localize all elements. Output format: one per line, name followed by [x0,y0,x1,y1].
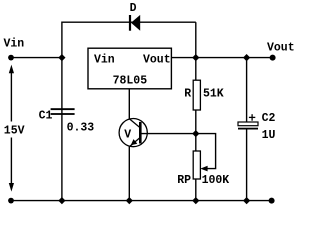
node bottom rail right terminal [269,198,275,204]
svg-text:78L05: 78L05 [113,75,148,88]
diode D cathode bar [129,15,131,31]
wire: output rail from 78L05 Vout pin to Vout terminal [172,57,273,59]
wire: output rail down to R top [195,58,197,81]
node junction: input rail / left vertical [58,54,65,61]
C2 polarity plus sign [249,114,255,121]
diode D triangle [131,15,140,31]
wire: bottom rail [11,200,272,202]
wire: top rail with diode [62,21,196,23]
potentiometer wiper arrowhead [200,166,207,172]
wire: 78L05 ground pin down to transistor collector [128,89,130,119]
transistor emitter diagonal [130,138,140,147]
node bottom rail left terminal [8,198,14,204]
wire: transistor emitter down to bottom rail [128,146,130,200]
resistor R body [193,80,200,110]
node bottom junction at C2 column [243,197,250,204]
svg-text:51K: 51K [203,88,224,101]
svg-text:C2: C2 [262,112,276,125]
wire: 15V source arrow shaft upper [10,73,12,122]
svg-text:100K: 100K [202,174,230,187]
regulator U1 78L05 box [88,48,171,89]
node Vout terminal dot [270,55,276,61]
transistor base bar [139,122,142,144]
capacitor C2 negative plate [238,128,258,130]
potentiometer RP body [193,151,200,179]
wire: Vin terminal to input junction [11,57,62,59]
wire: 15V source arrow shaft lower [10,138,12,184]
wire: R bottom to junction [195,110,197,134]
node Vin terminal dot [8,55,14,61]
svg-text:V: V [124,129,131,142]
svg-text:1U: 1U [262,129,276,142]
svg-text:Vin: Vin [94,54,115,67]
svg-text:D: D [130,2,137,15]
wire: C2 bottom plate to bottom rail [246,129,248,200]
svg-text:0.33: 0.33 [67,122,95,135]
wire: junction down to RP top [195,134,197,152]
capacitor C1 bottom plate [51,113,75,115]
node junction: output rail at C2 column [243,54,250,61]
wire: output rail down to C2 [246,58,248,123]
wire: RP bottom to bottom rail [195,179,197,201]
svg-text:R: R [184,88,191,101]
transistor V circle [119,119,147,147]
wire: left vertical rail (top corner down through C1 to bottom rail) [61,22,63,201]
wire: transistor base to R/RP junction [142,133,196,135]
node bottom junction at C1 column [58,197,65,204]
node bottom junction at emitter column [126,197,133,204]
capacitor C2 positive plate (electrolytic hollow box) [238,122,258,126]
svg-text:RP: RP [177,174,191,187]
node junction: output rail at R column [192,54,199,61]
svg-text:15V: 15V [4,124,25,137]
capacitor C1 top plate [51,108,75,110]
wire: RP wiper feedback loop [196,134,216,169]
node bottom junction at RP column [192,197,199,204]
svg-text:Vin: Vin [4,38,25,51]
svg-text:C1: C1 [39,110,53,123]
wire: right descent from top rail to output rail [195,22,197,57]
15V source up arrowhead [9,65,14,74]
svg-text:Vout: Vout [267,42,294,55]
node junction: R / RP / base [192,130,199,137]
15V source down arrowhead [9,183,14,192]
transistor emitter arrowhead [131,139,138,145]
svg-text:Vout: Vout [143,54,171,67]
transistor collector diagonal [129,119,140,128]
